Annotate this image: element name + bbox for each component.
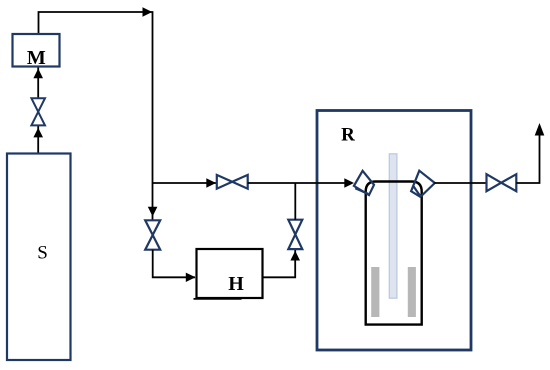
valve V1 between S and M (vertical bowtie) bbox=[31, 98, 45, 125]
svg-text:R: R bbox=[341, 125, 355, 146]
flow arrow on top wire pointing right bbox=[143, 7, 153, 16]
tilted valve TV2 on vessel outlet bbox=[411, 171, 435, 197]
flow arrow before tilted valve TV1 pointing right bbox=[344, 178, 354, 187]
wire branch down from main pipe to valve V2 bbox=[152, 183, 154, 220]
tilted valve TV1 on vessel inlet bbox=[354, 171, 374, 195]
flow arrow below valve V3 pointing up bbox=[290, 251, 300, 261]
wire from valve V5 right and up to vent bbox=[516, 133, 539, 183]
heater H bbox=[197, 249, 263, 298]
flow arrow vent pointing up bbox=[535, 123, 545, 136]
flow arrow below valve V1 pointing up bbox=[33, 128, 43, 138]
wire from M top up and right to corner bbox=[39, 12, 153, 183]
svg-text:S: S bbox=[37, 243, 48, 264]
flow arrow into M bottom pointing up bbox=[33, 69, 43, 79]
valve V4 on main pipe (horizontal bowtie) bbox=[217, 175, 248, 189]
electrode bar right bbox=[408, 267, 416, 317]
reactor vessel (rounded-top beaker) bbox=[366, 182, 422, 325]
wire from valve V2 down and right into H bbox=[153, 250, 195, 278]
wire main horizontal pipe from junction to valve V4 bbox=[153, 182, 217, 184]
svg-text:H: H bbox=[228, 273, 244, 295]
wire exit pipe from TV2 to valve V5 bbox=[434, 182, 486, 184]
valve V5 exit (horizontal bowtie) bbox=[487, 174, 517, 191]
wire from valve V3 up to main pipe junction bbox=[294, 183, 296, 220]
wire main pipe from valve V4 into reactor box bbox=[248, 182, 345, 184]
heater H bottom edge offset artifact bbox=[194, 298, 242, 300]
tank M bbox=[13, 34, 60, 67]
flow arrow into H pointing right bbox=[186, 273, 196, 282]
flow arrow above valve V2 pointing down bbox=[148, 207, 158, 217]
flow arrow before valve V4 pointing right bbox=[206, 178, 216, 187]
valve V3 (vertical bowtie) bbox=[288, 220, 302, 249]
svg-text:M: M bbox=[27, 47, 46, 69]
wire S up to M bbox=[37, 67, 39, 154]
valve V2 (vertical bowtie) bbox=[145, 220, 160, 249]
reactor enclosure R bbox=[317, 111, 471, 351]
stirrer rod bbox=[389, 154, 397, 298]
tank S bbox=[7, 154, 71, 361]
electrode bar left bbox=[371, 267, 379, 317]
wire from H right side up to main pipe bbox=[263, 250, 296, 277]
